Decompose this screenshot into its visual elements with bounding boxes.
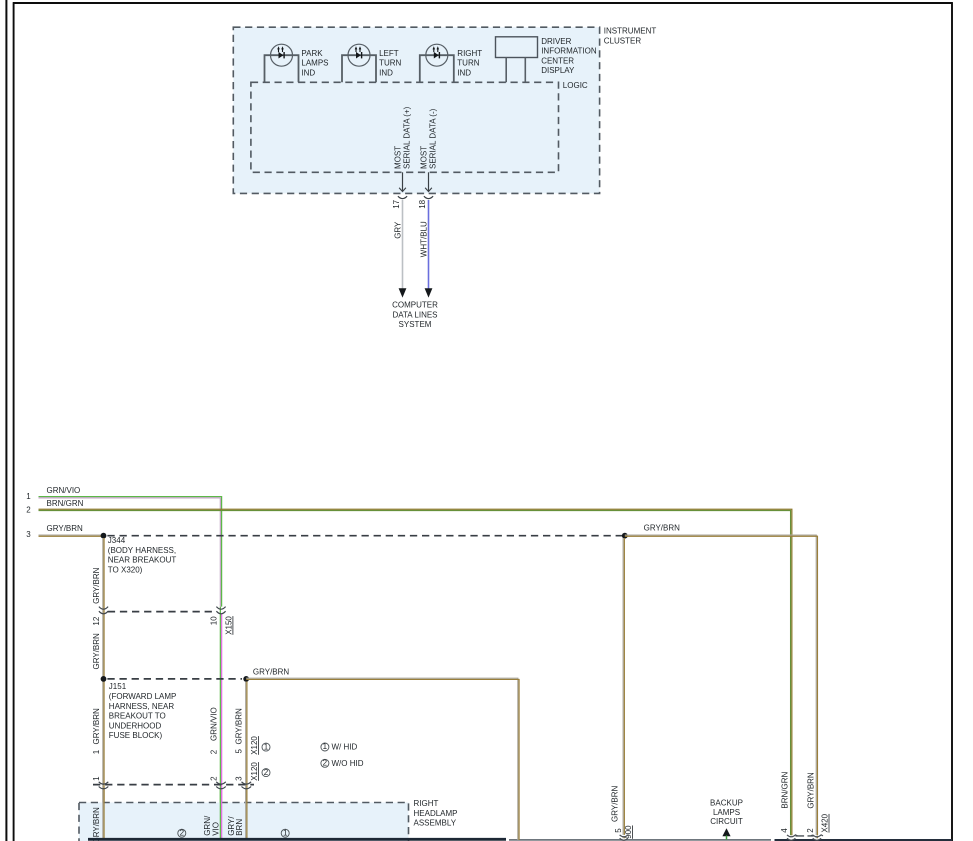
navy bottom line (inner lamp boxes top, cut off) <box>88 838 506 841</box>
svg-text:1: 1 <box>92 776 101 781</box>
backup lamps arrow <box>722 828 730 836</box>
driver information center display box <box>496 37 538 58</box>
svg-text:W/O HID: W/O HID <box>332 759 364 768</box>
wire from logic to cluster edge pin17 <box>402 172 404 191</box>
svg-text:1: 1 <box>323 742 328 751</box>
svg-text:MOST: MOST <box>419 146 428 169</box>
svg-text:INFORMATION: INFORMATION <box>541 47 597 56</box>
svg-text:RIGHT: RIGHT <box>457 49 482 58</box>
GRY/BRN branch wire right and down <box>246 678 518 840</box>
wire 1 GRN/VIO horizontal+vertical <box>39 497 222 607</box>
svg-text:HEADLAMP: HEADLAMP <box>414 809 458 818</box>
svg-text:TURN: TURN <box>379 59 401 68</box>
svg-text:PARK: PARK <box>301 49 323 58</box>
wire from logic to cluster edge pin18 <box>428 172 430 191</box>
svg-text:GRY: GRY <box>394 221 403 239</box>
svg-text:2: 2 <box>26 506 31 515</box>
connector arcs below cluster pin 18 <box>424 196 433 198</box>
svg-text:X150: X150 <box>225 616 234 635</box>
bottom dark line (cut-off box top, right) <box>775 839 953 841</box>
bottom gray line (cut-off box top, center) <box>509 839 771 841</box>
DIC display legs <box>506 58 525 83</box>
svg-text:CLUSTER: CLUSTER <box>604 36 642 45</box>
right headlamp assembly box <box>79 803 409 841</box>
legend circled 1 W/ HID <box>321 743 329 751</box>
svg-text:DATA LINES: DATA LINES <box>392 310 437 319</box>
junction dot GRY/BRN branch <box>243 676 249 682</box>
svg-text:GRY/BRN: GRY/BRN <box>611 785 620 822</box>
wire GRY/BRN J344 down through X150 J151 to headlamp <box>102 538 104 839</box>
svg-text:LAMPS: LAMPS <box>713 808 740 817</box>
wire 2 BRN/GRN <box>39 509 792 837</box>
crossing arcs wire 2 <box>216 782 226 789</box>
logic box <box>251 82 559 172</box>
svg-text:J344: J344 <box>108 536 126 545</box>
svg-text:BACKUP: BACKUP <box>710 799 743 808</box>
wire 1 below X150: GRN/VIO (magenta stripe) <box>219 607 221 839</box>
svg-text:5: 5 <box>235 749 244 754</box>
svg-text:2: 2 <box>209 749 218 754</box>
crossing arcs wire 1 <box>99 782 109 789</box>
wire GRY <box>402 200 404 289</box>
svg-text:W/ HID: W/ HID <box>332 743 358 752</box>
J151 dashed line <box>107 678 242 680</box>
svg-text:TO X320): TO X320) <box>108 566 143 575</box>
svg-text:GRY/BRN: GRY/BRN <box>47 524 84 533</box>
LED PARK LAMPS IND <box>265 44 299 82</box>
instrument cluster box <box>233 27 599 193</box>
svg-text:3: 3 <box>235 776 244 781</box>
svg-text:RIGHT: RIGHT <box>414 799 439 808</box>
svg-text:1: 1 <box>283 828 288 837</box>
wire WHT/BLU <box>428 200 430 289</box>
arrow to computer data lines (right) <box>425 288 433 297</box>
X150 connector arcs right wire <box>216 607 225 614</box>
X150 dashed line <box>108 611 216 613</box>
circled 2 inside headlamp <box>178 829 186 837</box>
svg-text:GRY/BRN: GRY/BRN <box>253 667 290 676</box>
svg-text:IND: IND <box>457 69 471 78</box>
svg-text:LOGIC: LOGIC <box>563 81 588 90</box>
svg-text:VIO: VIO <box>211 822 220 836</box>
svg-text:4: 4 <box>780 828 789 833</box>
svg-text:(FORWARD LAMP: (FORWARD LAMP <box>109 692 177 701</box>
svg-text:LAMPS: LAMPS <box>301 59 328 68</box>
svg-text:WHT/BLU: WHT/BLU <box>419 221 428 257</box>
wire GRY/BRN branch inside headlamp box <box>245 790 247 839</box>
wire 3 GRY/BRN to J344 <box>39 534 103 536</box>
svg-text:GRN/VIO: GRN/VIO <box>209 707 218 741</box>
svg-text:BRN: BRN <box>235 819 244 836</box>
svg-text:COMPUTER: COMPUTER <box>392 301 438 310</box>
svg-text:2: 2 <box>209 776 218 781</box>
svg-text:2: 2 <box>806 828 815 833</box>
X420 arcs GRY/BRN <box>811 835 823 840</box>
svg-text:X120: X120 <box>250 736 259 755</box>
900 connector arcs <box>620 835 628 840</box>
connector arcs below cluster pin 17 <box>398 196 407 198</box>
svg-text:HARNESS, NEAR: HARNESS, NEAR <box>109 702 175 711</box>
svg-text:BRN/GRN: BRN/GRN <box>47 499 84 508</box>
GRY/BRN wire below branch dot <box>245 682 247 839</box>
svg-text:12: 12 <box>92 616 101 625</box>
svg-text:CIRCUIT: CIRCUIT <box>710 817 743 826</box>
svg-text:CENTER: CENTER <box>541 56 574 65</box>
arrow to computer data lines (left) <box>399 288 407 297</box>
GRY/BRN wire down from right dot <box>622 538 624 839</box>
wire GRY/BRN inside headlamp box <box>102 790 104 839</box>
svg-text:BRN/GRN: BRN/GRN <box>781 771 790 808</box>
frame outer-left line <box>5 0 7 841</box>
crossing dashed line into headlamp <box>93 784 254 786</box>
svg-text:1: 1 <box>92 749 101 754</box>
svg-text:IND: IND <box>301 69 315 78</box>
svg-text:1: 1 <box>264 742 269 751</box>
svg-text:IND: IND <box>379 69 393 78</box>
svg-text:18: 18 <box>418 199 427 208</box>
svg-text:UNDERHOOD: UNDERHOOD <box>109 721 162 730</box>
GRY/BRN wire right top: right and down <box>625 535 816 840</box>
svg-text:GRY/BRN: GRY/BRN <box>92 567 101 604</box>
LED RIGHT TURN IND <box>420 44 454 82</box>
svg-text:MOST: MOST <box>394 146 403 169</box>
svg-text:BREAKOUT TO: BREAKOUT TO <box>109 712 166 721</box>
circled 1 inside headlamp <box>281 829 289 837</box>
svg-text:GRN/VIO: GRN/VIO <box>47 486 81 495</box>
svg-text:1: 1 <box>26 492 31 501</box>
J344 dashed line <box>107 535 622 537</box>
svg-text:DRIVER: DRIVER <box>541 37 571 46</box>
wire GRN/VIO inside headlamp box <box>219 790 221 839</box>
junction dot J344 <box>101 533 107 539</box>
svg-text:TURN: TURN <box>457 59 479 68</box>
svg-text:3: 3 <box>26 530 31 539</box>
X150 connector arcs left wire <box>99 607 108 614</box>
svg-text:J151: J151 <box>109 682 127 691</box>
svg-text:GRY/BRN: GRY/BRN <box>806 772 815 809</box>
junction dot GRY/BRN right <box>622 533 628 539</box>
crossing arcs wire 3 <box>242 782 252 789</box>
svg-text:GRY/BRN: GRY/BRN <box>644 524 681 533</box>
svg-text:X120: X120 <box>250 762 259 781</box>
svg-text:LEFT: LEFT <box>379 49 399 58</box>
svg-text:17: 17 <box>392 199 401 208</box>
svg-text:SERIAL DATA (+): SERIAL DATA (+) <box>403 106 412 169</box>
svg-text:SYSTEM: SYSTEM <box>399 320 432 329</box>
svg-text:2: 2 <box>323 759 328 768</box>
legend circled 2 W/O HID <box>321 759 329 767</box>
X420 arcs BRN/GRN <box>787 835 798 840</box>
svg-text:GRY/BRN: GRY/BRN <box>92 708 101 745</box>
svg-text:X420: X420 <box>821 813 830 832</box>
svg-text:DISPLAY: DISPLAY <box>541 66 575 75</box>
svg-text:GRY/BRN: GRY/BRN <box>92 633 101 670</box>
circled 2 at X120 <box>262 769 270 777</box>
svg-text:10: 10 <box>210 616 219 625</box>
X420 dashed connector line <box>796 835 814 837</box>
LED LEFT TURN IND <box>342 44 376 82</box>
svg-text:GRY/BRN: GRY/BRN <box>235 708 244 745</box>
svg-text:SERIAL DATA (-): SERIAL DATA (-) <box>428 108 437 169</box>
svg-text:2: 2 <box>264 768 269 777</box>
svg-text:FUSE BLOCK): FUSE BLOCK) <box>109 731 163 740</box>
svg-text:5: 5 <box>614 828 623 833</box>
junction dot J151 <box>101 676 107 682</box>
svg-text:ASSEMBLY: ASSEMBLY <box>414 819 457 828</box>
svg-text:GRY/BRN: GRY/BRN <box>92 807 101 841</box>
svg-text:INSTRUMENT: INSTRUMENT <box>604 27 657 36</box>
svg-text:(BODY HARNESS,: (BODY HARNESS, <box>108 546 176 555</box>
svg-text:NEAR BREAKOUT: NEAR BREAKOUT <box>108 556 177 565</box>
circled 1 at X120 <box>262 743 270 751</box>
svg-text:2: 2 <box>180 828 185 837</box>
